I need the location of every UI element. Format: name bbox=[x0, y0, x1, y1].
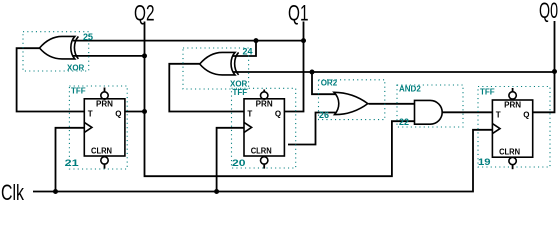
junction Clk/TFF20 bbox=[214, 189, 219, 194]
wire XOR24 output to TFF20 T input bbox=[169, 64, 244, 112]
wire OR2 top input tap from Q0 line bbox=[312, 72, 337, 94]
svg-text:TFF: TFF bbox=[480, 88, 495, 97]
junction Q2/TFF21-Q bbox=[142, 109, 147, 114]
svg-text:T: T bbox=[247, 110, 252, 119]
flip-flop TFF 19 bbox=[478, 87, 550, 170]
wire Q1 net: vertical from label down to TFF20 Q output bbox=[284, 22, 303, 112]
svg-text:PRN: PRN bbox=[256, 100, 273, 109]
wire XOR24 top input tap up to line bbox=[233, 41, 256, 56]
wire AND2 output to TFF19 T input bbox=[442, 111, 492, 113]
wire TFF21 Q to Q2 vertical bbox=[125, 111, 145, 113]
svg-text:Q0: Q0 bbox=[539, 0, 558, 23]
svg-text:25: 25 bbox=[83, 32, 93, 42]
svg-text:PRN: PRN bbox=[96, 100, 113, 109]
svg-text:T: T bbox=[496, 111, 501, 120]
junction OR2 tap on Q0 line bbox=[310, 70, 315, 75]
wire TFF20 clock tap bbox=[217, 128, 244, 192]
wire XOR25 top input line to Q1 vertical bbox=[73, 40, 304, 42]
svg-text:Q: Q bbox=[275, 110, 281, 119]
wire XOR25 output to TFF21 T input bbox=[17, 48, 85, 111]
svg-text:AND2: AND2 bbox=[399, 85, 421, 94]
svg-text:Clk: Clk bbox=[1, 180, 25, 205]
svg-text:T: T bbox=[88, 110, 93, 119]
wire TFF19 Q up to Q0 label bbox=[533, 21, 555, 112]
svg-text:26: 26 bbox=[319, 110, 329, 120]
flip-flop TFF 20 bbox=[232, 88, 296, 169]
junction Q0 vertical bbox=[552, 69, 557, 74]
wire OR2 output to AND2 top input bbox=[369, 103, 415, 105]
svg-text:21: 21 bbox=[65, 158, 79, 168]
svg-text:Q: Q bbox=[115, 110, 121, 119]
svg-text:PRN: PRN bbox=[504, 101, 521, 110]
svg-text:CLRN: CLRN bbox=[91, 147, 112, 156]
and gate AND2 bbox=[397, 85, 463, 128]
svg-text:Q1: Q1 bbox=[288, 1, 309, 26]
wire Clk net bbox=[33, 130, 492, 192]
junction Clk/TFF21 bbox=[53, 189, 58, 194]
svg-text:19: 19 bbox=[478, 157, 491, 167]
wire OR2 bottom input link from TFF20 side bbox=[288, 113, 337, 145]
or gate OR2 bbox=[319, 79, 385, 121]
svg-text:XOR: XOR bbox=[67, 64, 85, 73]
xor gate XOR24 bbox=[200, 52, 239, 75]
svg-text:Q: Q bbox=[523, 111, 529, 120]
wire XOR24 bottom input long line to Q0 vertical bbox=[233, 71, 555, 73]
junction Q2/XOR25 bbox=[142, 53, 147, 58]
flip-flop TFF 21 bbox=[65, 86, 128, 169]
svg-text:TFF: TFF bbox=[233, 88, 248, 97]
svg-text:24: 24 bbox=[243, 47, 253, 57]
wire TFF21 clock tap bbox=[56, 128, 85, 192]
svg-text:CLRN: CLRN bbox=[251, 147, 272, 156]
svg-text:CLRN: CLRN bbox=[499, 148, 520, 157]
svg-text:22: 22 bbox=[399, 117, 409, 127]
svg-text:20: 20 bbox=[232, 158, 246, 168]
xor gate XOR25 bbox=[23, 32, 93, 73]
junction XOR24 tap bbox=[254, 38, 259, 43]
svg-text:OR2: OR2 bbox=[321, 79, 338, 88]
svg-text:TFF: TFF bbox=[71, 87, 86, 96]
wire Q2 net: vertical from label, bottom route to AND2 lower input bbox=[145, 22, 415, 177]
junction Q1 line end bbox=[301, 38, 306, 43]
wire XOR25 bottom input to Q2 vertical bbox=[73, 55, 145, 57]
